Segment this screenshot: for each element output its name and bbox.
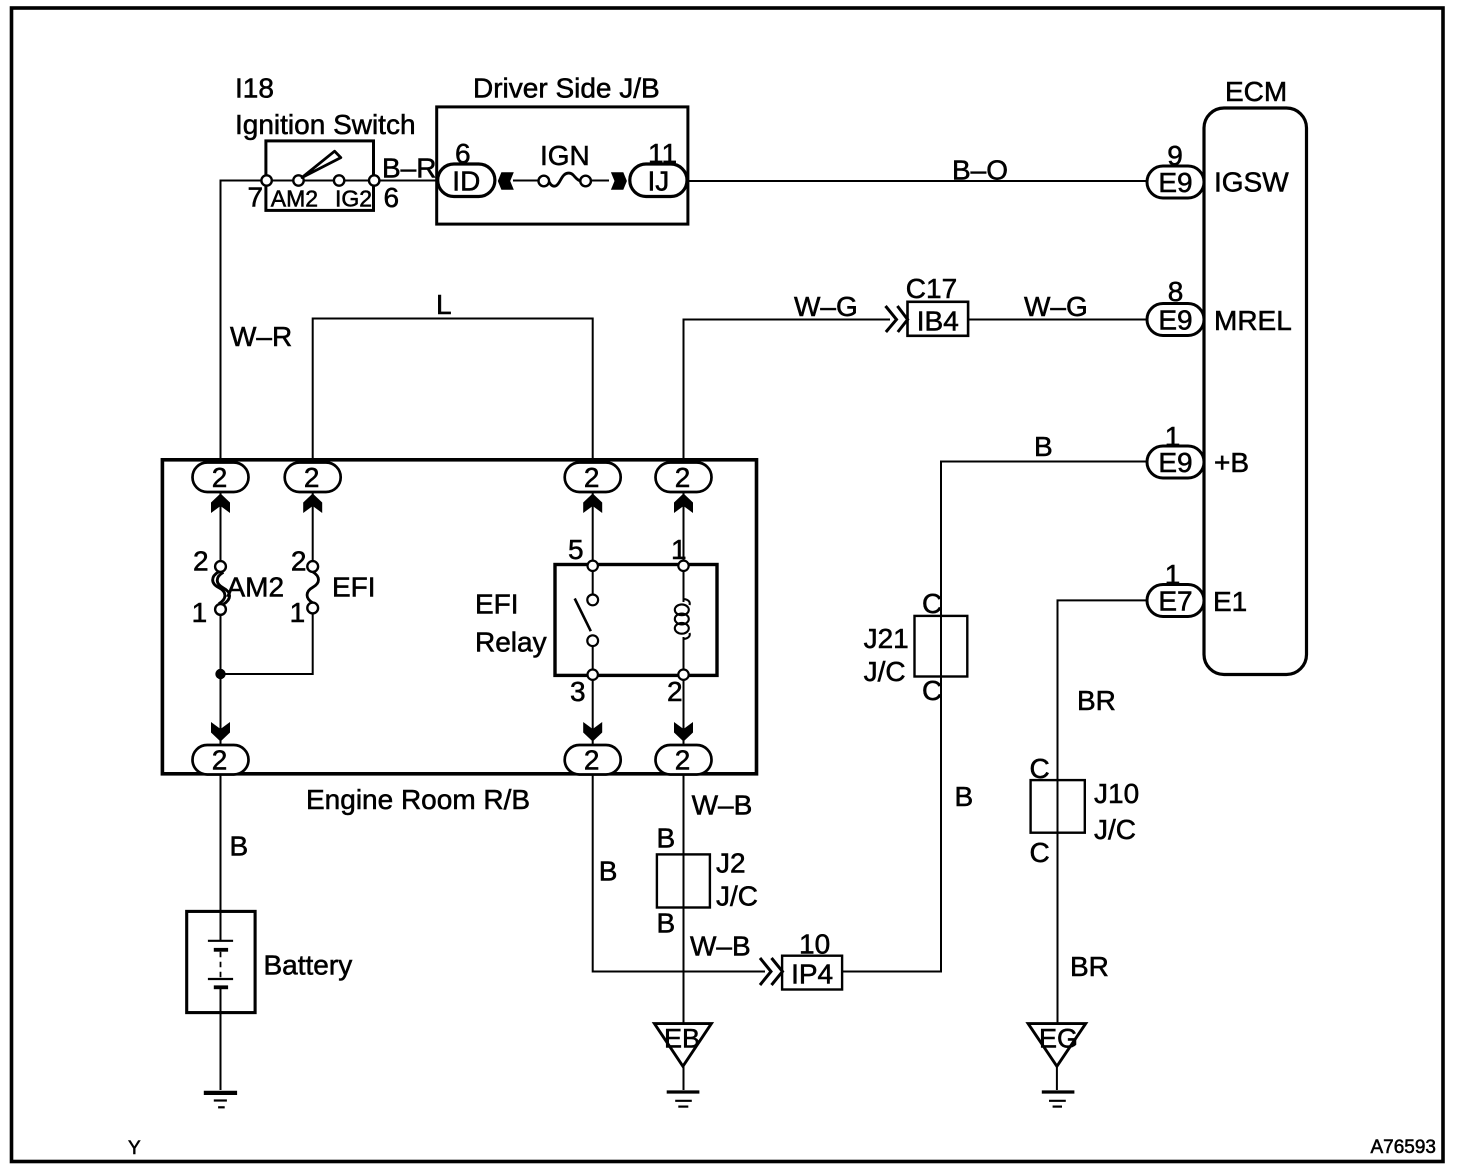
relay pin circles — [588, 561, 689, 680]
wire relay pin3 down to IP4 — [593, 641, 765, 972]
battery box — [187, 911, 255, 1012]
svg-text:ID: ID — [452, 166, 480, 197]
RB terminal ovals "2" bottom row — [193, 745, 712, 775]
svg-text:C17: C17 — [906, 273, 957, 304]
svg-text:B–R: B–R — [382, 153, 436, 184]
svg-text:1: 1 — [192, 597, 208, 628]
svg-text:1: 1 — [671, 534, 687, 565]
svg-text:J10: J10 — [1094, 778, 1139, 809]
ignition switch lever — [302, 151, 341, 177]
svg-text:5: 5 — [568, 534, 584, 565]
svg-text:EG: EG — [1039, 1024, 1078, 1054]
wire JB internal IGN fuse to IJ — [591, 180, 609, 182]
ECM box — [1204, 108, 1307, 675]
svg-text:BR: BR — [1070, 951, 1109, 982]
svg-text:B: B — [657, 823, 676, 854]
svg-text:A76593: A76593 — [1370, 1137, 1436, 1158]
svg-text:IJ: IJ — [648, 166, 670, 197]
connector arrow C17 double chevron — [886, 306, 908, 332]
svg-text:EB: EB — [664, 1024, 700, 1054]
svg-text:W–R: W–R — [230, 321, 292, 352]
ignition switch I18 box — [266, 141, 374, 211]
wire relay pin2 down through J2 to EB ground — [683, 637, 685, 1023]
svg-text:MREL: MREL — [1214, 305, 1292, 336]
svg-text:11: 11 — [648, 138, 677, 169]
relay switch contacts — [587, 595, 598, 647]
svg-text:B–O: B–O — [952, 155, 1008, 186]
svg-text:C: C — [1030, 837, 1050, 868]
wire IB4 to E9 MREL — [968, 319, 1147, 321]
svg-text:C: C — [1030, 753, 1050, 784]
connector oval E9 +B — [1147, 446, 1204, 478]
connector IP4 box — [782, 956, 842, 990]
svg-text:2: 2 — [212, 462, 228, 493]
svg-text:2: 2 — [291, 546, 307, 577]
wire battery to ground — [220, 989, 222, 1090]
fusible link AM2 element (double S) — [213, 572, 225, 604]
labels 2 in top ovals — [212, 462, 691, 493]
wire relay pin1 column up to MREL net — [684, 320, 891, 603]
ignition switch terminal circles — [261, 175, 379, 185]
Driver Side J/B box — [437, 107, 688, 224]
svg-text:C: C — [922, 675, 942, 706]
wire IP4 to J21 to E9 +B — [842, 462, 1147, 972]
svg-text:6: 6 — [455, 138, 471, 169]
svg-text:Battery: Battery — [264, 950, 353, 981]
svg-text:2: 2 — [193, 546, 209, 577]
svg-text:AM2: AM2 — [271, 186, 318, 212]
relay switch blade — [575, 599, 591, 632]
svg-text:Y: Y — [128, 1138, 141, 1159]
RB terminal ovals "2" top row — [193, 463, 712, 493]
svg-text:2: 2 — [675, 462, 691, 493]
wire JB internal ID to IGN fuse — [513, 180, 539, 182]
svg-text:IGN: IGN — [540, 140, 590, 171]
svg-text:Engine Room R/B: Engine Room R/B — [306, 784, 530, 815]
harness arrows up (below top ovals) — [211, 494, 693, 514]
wire E7 E1 to J10 to EG ground — [1058, 600, 1148, 1023]
svg-text:IG2: IG2 — [335, 186, 372, 212]
wire battery dashed internal — [220, 952, 222, 978]
svg-text:Relay: Relay — [475, 627, 547, 658]
svg-text:Driver Side J/B: Driver Side J/B — [473, 73, 660, 104]
junction dot — [215, 669, 225, 679]
svg-text:E7: E7 — [1158, 586, 1192, 617]
svg-text:Ignition Switch: Ignition Switch — [235, 109, 416, 140]
junction J10 J/C square — [1031, 780, 1085, 833]
svg-text:W–G: W–G — [1024, 291, 1088, 322]
JB arrow right (left of IJ) — [611, 172, 627, 190]
svg-text:IGSW: IGSW — [1214, 167, 1289, 198]
svg-text:W–B: W–B — [692, 790, 753, 821]
svg-text:IB4: IB4 — [917, 306, 959, 337]
wire L net EFI fuse to relay pin5 — [313, 319, 593, 601]
svg-text:E9: E9 — [1158, 447, 1192, 478]
svg-text:2: 2 — [584, 462, 600, 493]
battery cell plates — [208, 941, 233, 988]
svg-text:J/C: J/C — [864, 656, 906, 687]
svg-text:2: 2 — [584, 745, 600, 776]
EFI relay box — [555, 565, 717, 676]
fuse IGN circles — [539, 176, 591, 187]
fuse EFI element — [307, 572, 318, 603]
ground triangle EB — [654, 1024, 711, 1067]
svg-text:E9: E9 — [1158, 167, 1192, 198]
svg-text:IP4: IP4 — [791, 959, 833, 990]
labels 2 in bottom ovals — [212, 745, 691, 776]
wire AM2 fuse to battery column — [220, 615, 222, 940]
svg-text:J/C: J/C — [1094, 814, 1136, 845]
svg-text:7: 7 — [248, 182, 264, 213]
svg-text:2: 2 — [675, 745, 691, 776]
ground triangle EG — [1028, 1024, 1086, 1067]
connector C17 IB4 box — [908, 302, 969, 336]
svg-text:2: 2 — [212, 745, 228, 776]
connector arrow IP4 double chevron — [760, 958, 783, 985]
svg-text:EFI: EFI — [475, 589, 519, 620]
svg-text:J/C: J/C — [716, 881, 758, 912]
svg-text:E9: E9 — [1158, 305, 1192, 336]
ground symbol EB — [667, 1092, 700, 1107]
svg-text:1: 1 — [290, 597, 306, 628]
junction J2 J/C square — [657, 854, 710, 907]
fuse IGN element — [549, 173, 580, 186]
svg-text:6: 6 — [384, 182, 400, 213]
svg-text:B: B — [1034, 431, 1053, 462]
connector oval E7 E1 — [1147, 585, 1204, 617]
connector oval ID — [438, 164, 495, 197]
fusible link AM2 circles — [215, 561, 226, 615]
wire EFI fuse bottom jog to junction — [221, 613, 313, 674]
svg-text:J2: J2 — [716, 848, 746, 879]
ground symbol EG — [1042, 1092, 1075, 1107]
svg-text:W–G: W–G — [794, 291, 858, 322]
svg-text:2: 2 — [304, 462, 320, 493]
svg-text:L: L — [436, 289, 452, 320]
svg-text:B: B — [599, 856, 618, 887]
svg-text:10: 10 — [799, 929, 830, 960]
svg-text:8: 8 — [1168, 276, 1184, 307]
relay coil — [675, 599, 690, 639]
fuse EFI circles — [307, 561, 318, 613]
wire IJ to E9 IGSW — [687, 180, 1147, 182]
svg-text:+B: +B — [1214, 447, 1249, 478]
Engine Room R/B box — [162, 460, 756, 774]
connector oval E9 MREL — [1147, 304, 1204, 336]
svg-text:W–B: W–B — [690, 931, 751, 962]
svg-text:B: B — [657, 908, 676, 939]
svg-text:BR: BR — [1077, 685, 1116, 716]
svg-text:3: 3 — [570, 676, 586, 707]
svg-text:I18: I18 — [235, 73, 274, 104]
svg-text:B: B — [230, 831, 249, 862]
connector oval E9 IGSW — [1147, 166, 1204, 198]
svg-text:ECM: ECM — [1225, 76, 1287, 107]
svg-text:C: C — [922, 588, 942, 619]
ground symbol battery — [204, 1093, 237, 1107]
svg-text:B: B — [955, 781, 974, 812]
JB arrow left (right of ID) — [498, 172, 514, 190]
junction J21 J/C square — [915, 616, 968, 677]
svg-text:2: 2 — [667, 676, 683, 707]
svg-text:AM2: AM2 — [227, 572, 285, 603]
connector oval IJ — [630, 164, 687, 197]
svg-text:EFI: EFI — [332, 572, 376, 603]
svg-text:J21: J21 — [864, 623, 909, 654]
harness arrows down (above bottom ovals) — [211, 722, 693, 742]
svg-text:E1: E1 — [1213, 586, 1247, 617]
wire ignition switch pin7 to W-R column — [221, 181, 438, 562]
